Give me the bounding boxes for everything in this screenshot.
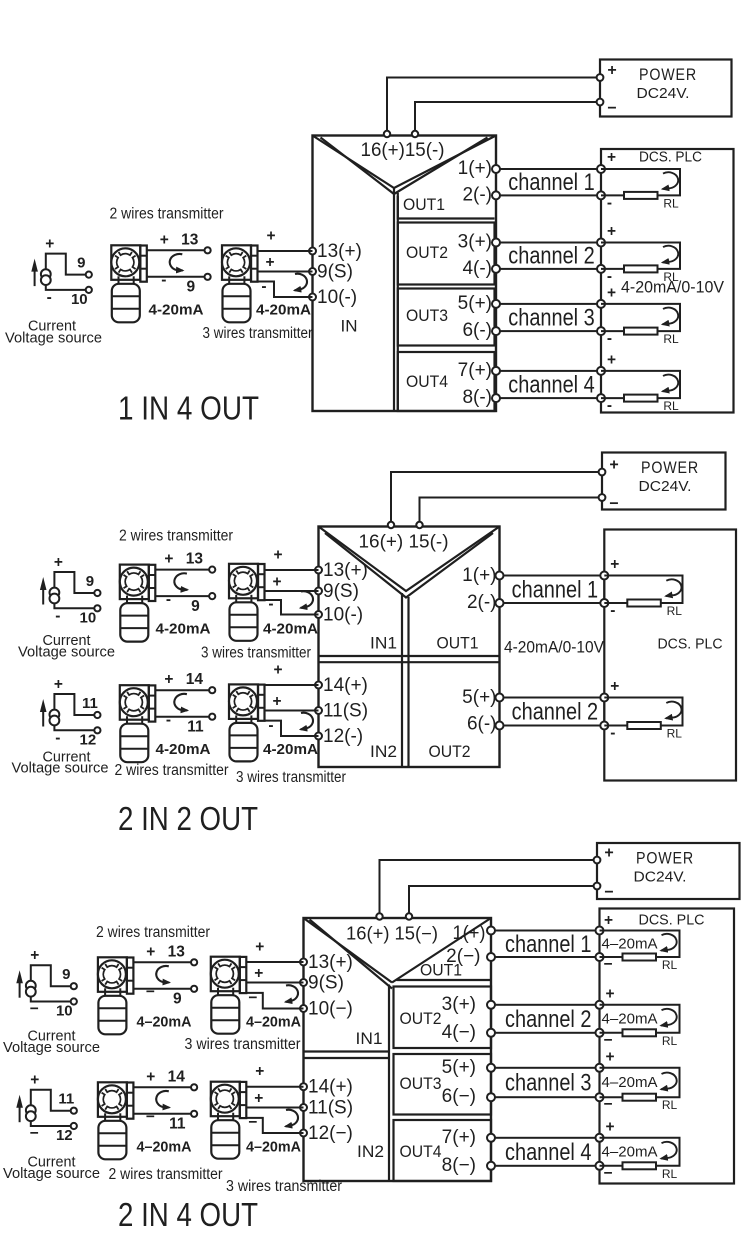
svg-text:9: 9 bbox=[62, 966, 70, 983]
wire T4 S to terminal bbox=[265, 590, 319, 592]
transmitter T7 dial bbox=[98, 960, 126, 988]
terminal 9 bbox=[205, 274, 211, 280]
channel box s3ch4 bbox=[491, 1138, 600, 1166]
svg-text:1(+): 1(+) bbox=[453, 923, 486, 944]
transmitter T4 neck bbox=[235, 595, 237, 603]
svg-text:14(+): 14(+) bbox=[323, 675, 368, 696]
svg-text:2 wires transmitter: 2 wires transmitter bbox=[109, 1166, 223, 1183]
power supply PS2 bbox=[602, 453, 726, 510]
svg-text:2 wires transmitter: 2 wires transmitter bbox=[119, 528, 233, 545]
svg-text:1(+): 1(+) bbox=[458, 158, 492, 179]
direction arrow SRC1 bbox=[34, 267, 36, 287]
transmitter T5 body bbox=[120, 724, 148, 763]
svg-text:+: + bbox=[610, 678, 619, 695]
direction arrow SRC5 bbox=[19, 1103, 21, 1123]
svg-text:1(+): 1(+) bbox=[462, 565, 496, 586]
current loop arrow T1 bbox=[170, 254, 183, 271]
svg-text:+: + bbox=[605, 1119, 614, 1136]
channel box s1ch1 bbox=[496, 169, 601, 195]
svg-text:5(+): 5(+) bbox=[458, 293, 492, 314]
current loop arrow T4 bbox=[301, 591, 314, 608]
wire T10 + to terminal bbox=[246, 1086, 303, 1088]
svg-text:7(+): 7(+) bbox=[458, 360, 492, 381]
svg-text:10: 10 bbox=[71, 291, 88, 308]
wire T6 + to terminal bbox=[265, 684, 319, 686]
svg-text:14: 14 bbox=[186, 671, 204, 688]
svg-text:RL: RL bbox=[663, 332, 679, 346]
transmitter T2 body bbox=[223, 284, 251, 323]
svg-text:-: - bbox=[268, 595, 273, 612]
svg-text:13: 13 bbox=[181, 231, 199, 248]
terminal 11(S) s3 bbox=[300, 1104, 307, 1111]
svg-text:12(-): 12(-) bbox=[323, 726, 363, 747]
svg-text:DC24V.: DC24V. bbox=[634, 869, 687, 886]
svg-text:1 IN 4 OUT: 1 IN 4 OUT bbox=[118, 390, 259, 427]
OUT3 box bbox=[398, 289, 495, 346]
wire T2 + to terminal bbox=[258, 250, 313, 252]
svg-text:channel 3: channel 3 bbox=[505, 1070, 592, 1097]
svg-text:RL: RL bbox=[662, 1167, 678, 1181]
svg-text:channel 2: channel 2 bbox=[508, 243, 595, 270]
wire T8 - to terminal bbox=[246, 993, 303, 1009]
current loop arrow T8 bbox=[286, 985, 299, 1002]
isolator block 2IN4OUT V notch right bbox=[392, 918, 491, 983]
transmitter T3 neck bbox=[126, 596, 128, 604]
transmitter T2 dial bbox=[222, 248, 250, 276]
current loop arrow T5 bbox=[174, 694, 187, 711]
load resistor RL s1ch2 bbox=[624, 265, 658, 272]
svg-text:RL: RL bbox=[667, 727, 683, 741]
wire SRC2 + to terminal 9 bbox=[54, 572, 94, 593]
svg-text:−: − bbox=[248, 1114, 257, 1131]
terminal 9(S) s2 bbox=[315, 588, 322, 595]
terminal s2ch2 right + bbox=[600, 694, 608, 702]
svg-text:2 wires transmitter: 2 wires transmitter bbox=[115, 762, 229, 779]
transmitter T1 dial bbox=[111, 248, 139, 276]
svg-text:9: 9 bbox=[186, 279, 195, 296]
svg-text:13: 13 bbox=[168, 943, 186, 960]
svg-text:4(-): 4(-) bbox=[462, 258, 492, 279]
current loop arrow T2 bbox=[295, 274, 308, 291]
svg-text:4-20mA: 4-20mA bbox=[263, 741, 318, 758]
load current arrow s1ch4 bbox=[663, 375, 679, 392]
isolator block 2IN2OUT V notch inner bbox=[325, 533, 493, 598]
svg-text:-: - bbox=[607, 194, 612, 211]
current loop arrow T6 bbox=[301, 713, 314, 730]
terminal 9 bbox=[86, 272, 92, 278]
terminal s1ch1 right + bbox=[597, 165, 605, 173]
load loop wire s1ch3 bbox=[601, 304, 680, 331]
svg-text:14(+): 14(+) bbox=[308, 1077, 353, 1098]
terminal s1ch1 left - bbox=[492, 191, 500, 199]
svg-text:16(+)15(-): 16(+)15(-) bbox=[361, 140, 445, 161]
svg-text:+: + bbox=[607, 62, 616, 79]
load current arrow s1ch1 bbox=[663, 172, 679, 189]
terminal s3ch4 right + bbox=[596, 1134, 604, 1142]
svg-text:OUT3: OUT3 bbox=[406, 306, 448, 325]
svg-text:OUT1: OUT1 bbox=[403, 195, 445, 214]
OUT4 box bbox=[398, 352, 495, 411]
wire T2 - to terminal bbox=[258, 282, 313, 298]
terminal 11(S) s2 bbox=[315, 707, 322, 714]
svg-text:+: + bbox=[605, 1049, 614, 1066]
svg-text:-: - bbox=[261, 278, 266, 295]
svg-text:4-20mA/0-10V: 4-20mA/0-10V bbox=[504, 639, 604, 657]
svg-text:+: + bbox=[607, 223, 616, 240]
svg-text:IN2: IN2 bbox=[370, 742, 397, 761]
svg-text:14: 14 bbox=[168, 1068, 186, 1085]
channel box s1ch3 bbox=[496, 304, 601, 331]
svg-text:13(+): 13(+) bbox=[323, 560, 368, 581]
transmitter T7 head bbox=[98, 957, 127, 992]
transmitter T10 body bbox=[211, 1120, 239, 1159]
svg-text:11: 11 bbox=[58, 1091, 74, 1108]
OUT2 box s3 bbox=[394, 987, 492, 1049]
terminal 11 bbox=[94, 712, 100, 718]
load current arrow s3ch1 bbox=[661, 934, 677, 951]
svg-text:16(+) 15(−): 16(+) 15(−) bbox=[346, 924, 438, 944]
svg-text:RL: RL bbox=[662, 958, 678, 972]
svg-text:+: + bbox=[146, 943, 155, 960]
svg-text:4-20mA: 4-20mA bbox=[263, 621, 318, 638]
transmitter T8 neck bbox=[217, 988, 219, 996]
svg-text:−: − bbox=[146, 984, 155, 1001]
terminal 14 bbox=[209, 687, 215, 693]
svg-text:10: 10 bbox=[80, 610, 97, 627]
wire 15(-) to POWER - s3 bbox=[409, 886, 597, 914]
transmitter T9 terminal block bbox=[127, 1083, 133, 1119]
svg-text:3 wires transmitter: 3 wires transmitter bbox=[203, 325, 313, 342]
load resistor RL s1ch1 bbox=[624, 192, 658, 199]
svg-text:4–20mA: 4–20mA bbox=[602, 1075, 658, 1091]
isolator block 2IN4OUT V notch left outer bbox=[304, 918, 393, 983]
transmitter T1 terminal block bbox=[140, 246, 147, 282]
svg-text:RL: RL bbox=[662, 1098, 678, 1112]
load current arrow s3ch2 bbox=[661, 1009, 677, 1026]
channel box s3ch1 bbox=[491, 931, 600, 958]
terminal s2ch1 left + bbox=[496, 572, 504, 580]
terminal 10(−) s3 bbox=[300, 1005, 307, 1012]
terminal 9 bbox=[94, 590, 100, 596]
svg-text:2 wires transmitter: 2 wires transmitter bbox=[96, 924, 210, 941]
svg-text:4-20mA: 4-20mA bbox=[156, 621, 211, 638]
transmitter T10 dial bbox=[211, 1085, 239, 1113]
svg-text:−: − bbox=[609, 496, 618, 513]
svg-text:2 IN 4 OUT: 2 IN 4 OUT bbox=[118, 1196, 258, 1233]
terminal 16 s3 bbox=[376, 913, 382, 919]
svg-text:11: 11 bbox=[169, 1116, 186, 1133]
current source SRC2 bbox=[50, 588, 60, 598]
wire T1 + bbox=[147, 249, 205, 251]
svg-text:Voltage source: Voltage source bbox=[18, 645, 115, 661]
svg-text:10(−): 10(−) bbox=[308, 999, 353, 1020]
terminal 15 bbox=[412, 131, 418, 137]
transmitter T6 dial bbox=[229, 687, 257, 715]
isolator block 2IN4OUT outline bbox=[304, 918, 492, 1181]
svg-text:RL: RL bbox=[663, 270, 679, 284]
channel box s3ch3 bbox=[491, 1068, 600, 1097]
wire T4 - to terminal bbox=[265, 600, 319, 615]
wire T3 + bbox=[155, 569, 209, 571]
svg-text:DCS. PLC: DCS. PLC bbox=[639, 913, 705, 929]
isolator block 1IN4OUT V notch inner bbox=[321, 138, 488, 195]
wire SRC4 + to terminal 9 bbox=[31, 965, 71, 986]
terminal 14(+) s2 bbox=[315, 682, 322, 689]
svg-text:channel 4: channel 4 bbox=[508, 372, 595, 399]
terminal s1ch2 left - bbox=[492, 265, 500, 273]
channel box s2ch1 bbox=[500, 576, 605, 604]
terminal 16 s2 bbox=[388, 522, 394, 528]
terminal s3ch4 left + bbox=[487, 1134, 495, 1142]
transmitter T4 body bbox=[230, 602, 258, 641]
current source SRC5 bbox=[26, 1105, 36, 1115]
svg-text:4(−): 4(−) bbox=[442, 1022, 476, 1043]
svg-text:3(+): 3(+) bbox=[458, 232, 492, 253]
svg-text:13: 13 bbox=[186, 551, 204, 568]
terminal s1ch4 right + bbox=[597, 367, 605, 375]
DCS PLC box s1 bbox=[601, 149, 734, 413]
svg-text:+: + bbox=[146, 1068, 155, 1085]
svg-text:POWER: POWER bbox=[639, 65, 697, 84]
load loop wire s2ch1 bbox=[604, 576, 682, 604]
terminal s1ch1 left + bbox=[492, 165, 500, 173]
svg-text:+: + bbox=[604, 845, 613, 862]
svg-text:RL: RL bbox=[663, 196, 679, 210]
terminal 10(-) s2 bbox=[315, 611, 322, 618]
load current arrow s2ch1 bbox=[666, 579, 682, 596]
svg-text:9: 9 bbox=[77, 255, 85, 272]
wire SRC4 - to terminal 10 bbox=[31, 997, 71, 1002]
transmitter T1 head bbox=[111, 245, 140, 279]
terminal 12 bbox=[94, 727, 100, 733]
terminal 15 s3 bbox=[406, 913, 412, 919]
load resistor RL s1ch3 bbox=[624, 328, 658, 335]
svg-text:−: − bbox=[603, 956, 612, 973]
svg-text:11: 11 bbox=[187, 719, 204, 736]
load loop wire s3ch4 bbox=[600, 1138, 680, 1166]
terminal 15 s2 bbox=[416, 522, 422, 528]
terminal s3ch2 left + bbox=[487, 1001, 495, 1009]
svg-text:-: - bbox=[607, 330, 612, 347]
transmitter T6 body bbox=[230, 723, 258, 762]
svg-text:+: + bbox=[255, 1063, 264, 1080]
isolator block 1IN4OUT outline bbox=[313, 136, 497, 412]
isolator block divider IN column bbox=[393, 188, 395, 411]
svg-text:RL: RL bbox=[667, 604, 683, 618]
load loop wire s1ch4 bbox=[601, 371, 680, 398]
terminal s1ch4 left - bbox=[492, 394, 500, 402]
wire T6 S to terminal bbox=[265, 710, 319, 712]
terminal 13(+) s3 bbox=[300, 959, 307, 966]
terminal 14(+) s3 bbox=[300, 1083, 307, 1090]
svg-text:OUT3: OUT3 bbox=[400, 1074, 442, 1093]
terminal 9 bbox=[191, 986, 197, 992]
svg-text:-: - bbox=[166, 591, 171, 608]
svg-text:POWER: POWER bbox=[641, 458, 699, 477]
terminal PS2 - bbox=[599, 494, 606, 501]
wire T8 S to terminal bbox=[246, 982, 303, 984]
isolator block 2IN2OUT outline bbox=[319, 527, 500, 768]
svg-text:+: + bbox=[164, 551, 173, 568]
channel box s1ch4 bbox=[496, 371, 601, 398]
svg-text:+: + bbox=[605, 986, 614, 1003]
transmitter T10 terminal block bbox=[240, 1082, 247, 1118]
svg-text:−: − bbox=[604, 884, 613, 901]
wire T3 - bbox=[155, 595, 209, 597]
svg-text:+: + bbox=[254, 1090, 263, 1107]
quadrant divider vertical s2 bbox=[401, 593, 403, 767]
wire SRC1 - to terminal 10 bbox=[46, 285, 86, 290]
svg-text:OUT2: OUT2 bbox=[406, 243, 448, 262]
svg-text:10(-): 10(-) bbox=[317, 287, 357, 308]
terminal 13 bbox=[191, 959, 197, 965]
svg-text:channel 3: channel 3 bbox=[508, 305, 595, 332]
terminal PS1 + bbox=[597, 74, 604, 81]
load resistor RL s3ch1 bbox=[623, 954, 657, 961]
svg-text:+: + bbox=[272, 574, 281, 591]
svg-text:16(+) 15(-): 16(+) 15(-) bbox=[359, 532, 449, 552]
channel box s1ch2 bbox=[496, 243, 601, 269]
svg-text:-: - bbox=[268, 717, 273, 734]
terminal 11 bbox=[209, 714, 215, 720]
svg-text:channel 2: channel 2 bbox=[505, 1006, 592, 1033]
svg-text:channel 1: channel 1 bbox=[508, 169, 595, 196]
load loop wire s3ch1 bbox=[600, 931, 680, 958]
transmitter T6 terminal block bbox=[258, 685, 265, 721]
svg-text:−: − bbox=[607, 100, 616, 117]
svg-text:10(-): 10(-) bbox=[323, 605, 363, 626]
current source SRC3 bbox=[50, 710, 60, 720]
terminal s1ch2 right + bbox=[597, 239, 605, 247]
svg-text:+: + bbox=[30, 947, 39, 964]
transmitter T5 terminal block bbox=[149, 685, 156, 721]
wire T5 - bbox=[155, 716, 209, 718]
wire T9 - bbox=[133, 1113, 191, 1115]
OUT2 box bbox=[398, 223, 495, 285]
current source SRC4 bbox=[26, 981, 36, 991]
svg-text:-: - bbox=[610, 602, 615, 619]
terminal 13(+) bbox=[309, 248, 316, 255]
terminal 13 bbox=[205, 247, 211, 253]
transmitter T2 neck bbox=[228, 276, 230, 284]
svg-text:-: - bbox=[55, 730, 60, 747]
svg-text:2 IN 2 OUT: 2 IN 2 OUT bbox=[118, 800, 258, 837]
svg-text:RL: RL bbox=[663, 399, 679, 413]
terminal s3ch3 right + bbox=[596, 1064, 604, 1072]
svg-text:9(S): 9(S) bbox=[308, 973, 344, 994]
transmitter T8 head bbox=[211, 957, 240, 992]
OUT3 box s3 bbox=[394, 1054, 492, 1115]
direction arrow SRC3 bbox=[42, 707, 44, 727]
load current arrow s1ch2 bbox=[663, 246, 679, 263]
svg-text:4–20mA: 4–20mA bbox=[137, 1014, 192, 1031]
terminal s3ch1 right + bbox=[596, 927, 604, 935]
transmitter T9 neck bbox=[104, 1113, 106, 1121]
svg-text:-: - bbox=[161, 272, 166, 289]
transmitter T3 terminal block bbox=[149, 565, 156, 601]
terminal 9 bbox=[209, 593, 215, 599]
svg-text:-: - bbox=[607, 397, 612, 414]
terminal 11 bbox=[71, 1108, 77, 1114]
svg-text:4–20mA: 4–20mA bbox=[246, 1014, 301, 1031]
wire SRC1 + to terminal 9 bbox=[46, 254, 86, 275]
transmitter T3 dial bbox=[120, 568, 148, 596]
terminal 16 bbox=[384, 131, 390, 137]
load resistor RL s1ch4 bbox=[624, 395, 658, 402]
svg-text:IN1: IN1 bbox=[370, 634, 397, 653]
svg-text:4-20mA: 4-20mA bbox=[149, 302, 204, 319]
DCS PLC box s2 bbox=[604, 530, 736, 781]
terminal s3ch3 right - bbox=[596, 1093, 604, 1101]
svg-text:OUT4: OUT4 bbox=[400, 1142, 442, 1161]
current loop arrow T3 bbox=[174, 573, 187, 590]
terminal 9 bbox=[71, 983, 77, 989]
svg-text:2(-): 2(-) bbox=[462, 184, 492, 205]
svg-text:+: + bbox=[54, 554, 63, 571]
isolator block 1IN4OUT V notch outer bbox=[313, 136, 497, 189]
svg-text:OUT2: OUT2 bbox=[400, 1009, 442, 1028]
svg-text:4-20mA: 4-20mA bbox=[156, 741, 211, 758]
terminal s3ch2 right + bbox=[596, 1001, 604, 1009]
svg-text:+: + bbox=[609, 457, 618, 474]
svg-text:6(−): 6(−) bbox=[442, 1086, 476, 1107]
terminal s3ch1 right - bbox=[596, 953, 604, 961]
svg-text:−: − bbox=[248, 989, 257, 1006]
terminal s3ch4 right - bbox=[596, 1162, 604, 1170]
load resistor RL s2ch1 bbox=[627, 600, 661, 607]
terminal s3ch2 left - bbox=[487, 1029, 495, 1037]
load current arrow s1ch3 bbox=[663, 308, 679, 325]
svg-text:-: - bbox=[610, 725, 615, 742]
terminal s2ch1 left - bbox=[496, 599, 504, 607]
transmitter T3 body bbox=[120, 603, 148, 642]
svg-text:+: + bbox=[160, 231, 169, 248]
terminal s1ch4 left + bbox=[492, 367, 500, 375]
load loop wire s1ch1 bbox=[601, 169, 680, 195]
wire T5 + bbox=[155, 689, 209, 691]
terminal 10 bbox=[94, 605, 100, 611]
svg-text:4–20mA: 4–20mA bbox=[246, 1139, 301, 1156]
svg-text:3 wires transmitter: 3 wires transmitter bbox=[201, 645, 311, 662]
svg-text:4-20mA: 4-20mA bbox=[256, 302, 311, 319]
load loop wire s1ch2 bbox=[601, 243, 680, 269]
channel box s2ch2 bbox=[500, 698, 605, 726]
svg-text:6(-): 6(-) bbox=[467, 714, 497, 735]
DCS PLC box s3 bbox=[600, 909, 735, 1184]
OUT1 separator s3 bbox=[397, 979, 492, 981]
svg-text:+: + bbox=[45, 236, 54, 253]
terminal s2ch1 right + bbox=[600, 572, 608, 580]
terminal 13(+) s2 bbox=[315, 567, 322, 574]
svg-text:3 wires transmitter: 3 wires transmitter bbox=[226, 1178, 342, 1195]
terminal 10 bbox=[86, 287, 92, 293]
svg-text:RL: RL bbox=[662, 1034, 678, 1048]
transmitter T5 head bbox=[120, 685, 149, 720]
load current arrow s3ch4 bbox=[661, 1142, 677, 1159]
svg-text:2(-): 2(-) bbox=[467, 592, 497, 613]
svg-text:+: + bbox=[610, 556, 619, 573]
current loop arrow T7 bbox=[156, 966, 169, 983]
svg-text:3 wires transmitter: 3 wires transmitter bbox=[236, 769, 346, 786]
svg-text:DC24V.: DC24V. bbox=[637, 85, 690, 102]
terminal s3ch3 left - bbox=[487, 1093, 495, 1101]
svg-text:8(-): 8(-) bbox=[462, 387, 492, 408]
wire 16(+) to POWER + s3 bbox=[380, 860, 597, 914]
transmitter T7 neck bbox=[104, 988, 106, 996]
terminal s1ch3 right + bbox=[597, 300, 605, 308]
svg-text:Voltage source: Voltage source bbox=[12, 761, 109, 777]
current loop arrow T9 bbox=[156, 1091, 169, 1108]
